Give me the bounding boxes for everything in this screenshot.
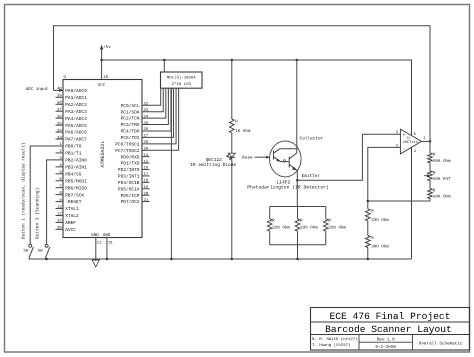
svg-text:10K POT: 10K POT	[433, 177, 451, 182]
svg-text:AVCC: AVCC	[65, 227, 76, 233]
pin 35 PA5/ADC5	[56, 124, 64, 126]
svg-text:PC5/TDI: PC5/TDI	[121, 135, 140, 141]
svg-text:N. R. Smith (nrs27): N. R. Smith (nrs27)	[312, 337, 358, 342]
resistor R 10K Ohm	[429, 181, 431, 189]
svg-text:PC1/SDA: PC1/SDA	[121, 109, 140, 115]
svg-text:Overall Schematic: Overall Schematic	[419, 341, 463, 347]
svg-text:35: 35	[57, 121, 62, 126]
svg-text:36: 36	[57, 114, 62, 119]
svg-text:Button 1 (ready/scan, display: Button 1 (ready/scan, display result)	[21, 143, 27, 239]
pin 17 PD3/INT1	[142, 175, 150, 177]
pin 14 PD0/RXD	[142, 156, 150, 158]
svg-text:MDL(S)-16264: MDL(S)-16264	[167, 76, 196, 81]
wire LCD ground return	[170, 88, 172, 259]
svg-text:PD4/OC1B: PD4/OC1B	[118, 180, 140, 186]
pin 33 PA7/ADC7	[56, 138, 64, 140]
svg-text:IR emitting Diode: IR emitting Diode	[190, 162, 236, 168]
svg-text:32: 32	[57, 219, 62, 224]
node divider gnd	[367, 258, 370, 261]
svg-text:Rev 1.0: Rev 1.0	[377, 338, 395, 343]
svg-text:2*16 LCD: 2*16 LCD	[172, 82, 192, 87]
pin 7 PB6/MISO	[56, 187, 64, 189]
wire LCD supply	[163, 60, 165, 72]
op IC outline: microcontroller U ATMEGA32L	[63, 80, 142, 238]
switch SW button 2	[45, 244, 48, 247]
node collector tap	[296, 59, 299, 62]
wire R to diode	[231, 133, 233, 153]
pin 8 PB7/SCK	[56, 194, 64, 196]
svg-text:39: 39	[57, 94, 62, 99]
resistor R 1K Ohm	[230, 119, 235, 133]
svg-text:PC7/TOSC2: PC7/TOSC2	[115, 148, 140, 154]
svg-text:31: 31	[108, 241, 113, 246]
svg-text:PA5/ADC5: PA5/ADC5	[65, 123, 87, 129]
svg-text:Photodarlington (IR Detector): Photodarlington (IR Detector)	[247, 184, 329, 190]
svg-text:PB1/T1: PB1/T1	[65, 151, 82, 157]
svg-text:38: 38	[57, 101, 62, 106]
svg-text:PA3/ADC3: PA3/ADC3	[65, 109, 87, 115]
title block	[311, 308, 470, 351]
wire ground rail	[29, 258, 412, 260]
op-amp U LMC7111	[400, 129, 421, 154]
switch SW button 1	[29, 244, 32, 247]
svg-text:PB6/MISO: PB6/MISO	[65, 185, 87, 191]
svg-text:PA4/ADC4: PA4/ADC4	[65, 116, 87, 122]
wire ADC input to pin 40	[54, 89, 64, 91]
wire diode to ground	[231, 157, 233, 259]
svg-text:-RESET: -RESET	[65, 199, 82, 205]
node emitter junction	[296, 179, 299, 182]
svg-text:13: 13	[57, 205, 62, 210]
svg-text:PC3/TMS: PC3/TMS	[121, 122, 140, 128]
svg-text:5-2-2006: 5-2-2006	[375, 345, 396, 350]
wire VCC drop to pin 10	[101, 60, 103, 80]
svg-text:SW: SW	[23, 248, 28, 253]
svg-text:12: 12	[57, 212, 62, 217]
svg-text:AREF: AREF	[65, 221, 76, 226]
node GND pin31	[106, 258, 109, 261]
pin 15 PD1/TXD	[142, 162, 150, 164]
transistor L14F2 photodarlington	[270, 141, 302, 177]
wire emitter	[296, 170, 298, 180]
wire load bank top	[270, 206, 326, 208]
pin 39 PA1/ADC1	[56, 96, 64, 98]
node 330 bank gnd	[296, 258, 299, 261]
wire GND pin 31	[106, 238, 108, 260]
svg-text:Barcode Scanner Layout: Barcode Scanner Layout	[325, 324, 452, 335]
svg-text:PD3/INT1: PD3/INT1	[118, 174, 140, 180]
resistor R3 330 Ohm	[325, 207, 327, 219]
svg-text:33: 33	[57, 135, 62, 140]
svg-text:PD6/ICP: PD6/ICP	[121, 193, 140, 199]
svg-text:Button 2 (Scanning): Button 2 (Scanning)	[35, 188, 41, 239]
node inverting/divider tee	[367, 200, 370, 203]
svg-text:34: 34	[57, 128, 62, 133]
svg-text:PC6/TOSC1: PC6/TOSC1	[115, 141, 140, 147]
pin 6 PB5/MOSI	[56, 180, 64, 182]
svg-text:LMC7111: LMC7111	[402, 140, 418, 145]
wire emitter to load bank	[296, 180, 298, 206]
pin 9 -RESET	[56, 201, 64, 203]
potentiometer R 10K POT	[429, 163, 431, 171]
node 1K resistor tap	[231, 59, 234, 62]
svg-text:+5v: +5v	[103, 45, 111, 50]
svg-text:15: 15	[144, 159, 149, 164]
wire feedback bottom	[368, 199, 430, 201]
svg-text:PC0/SCL: PC0/SCL	[121, 103, 140, 109]
svg-text:21: 21	[144, 198, 149, 203]
wire ADC net: op-amp output to PA0/ADC0 via top rail	[54, 26, 431, 142]
svg-text:PD5/OC1A: PD5/OC1A	[118, 186, 140, 192]
pin 4 V- to ground	[411, 148, 413, 259]
node LCD gnd	[170, 258, 173, 261]
svg-text:ATMEGA32L: ATMEGA32L	[100, 140, 106, 167]
svg-text:Emitter: Emitter	[302, 173, 321, 179]
svg-text:PB0/T0: PB0/T0	[65, 144, 82, 150]
pin 13 XTAL1	[56, 208, 64, 210]
svg-text:PB4/SS: PB4/SS	[65, 171, 82, 177]
resistor R 20K Ohm	[429, 141, 431, 153]
wire collector	[296, 60, 298, 145]
svg-text:PB5/MOSI: PB5/MOSI	[65, 178, 87, 184]
svg-text:PA6/ADC6: PA6/ADC6	[65, 130, 87, 136]
resistor R2 330 Ohm	[297, 207, 299, 219]
ground symbol	[92, 260, 99, 267]
svg-text:PA7/ADC7: PA7/ADC7	[65, 137, 87, 143]
node LCD supply tap	[163, 59, 166, 62]
svg-text:20: 20	[144, 191, 149, 196]
svg-text:16: 16	[144, 166, 149, 171]
pin 5 PB4/SS	[56, 173, 64, 175]
node IR diode gnd	[231, 258, 234, 261]
wire bank to ground	[297, 245, 299, 259]
resistor R 330 Ohm divider	[367, 201, 369, 209]
pin 36 PA4/ADC4	[56, 117, 64, 119]
svg-text:Base: Base	[242, 156, 253, 161]
svg-text:PD2/INT0: PD2/INT0	[118, 167, 140, 173]
pin 2 inverting input wire	[368, 147, 401, 201]
wire emitter to op-amp + input	[297, 134, 400, 180]
pin 30 AVCC	[56, 228, 64, 230]
LCD module MDL(S)-16264	[161, 72, 203, 88]
svg-text:30: 30	[57, 226, 62, 231]
pin 4 PB3/AIN1	[56, 166, 64, 168]
power +5v symbol	[100, 45, 103, 50]
wire button 2 to PB2/AIN0	[47, 160, 63, 244]
svg-text:17: 17	[144, 172, 149, 177]
pin 19 PD5/OC1A	[142, 188, 150, 190]
svg-text:PD1/TXD: PD1/TXD	[121, 161, 140, 167]
svg-text:PA0/ADC0: PA0/ADC0	[65, 88, 87, 94]
node +5v/VCC tee	[100, 59, 103, 62]
svg-text:XTAL1: XTAL1	[65, 207, 79, 212]
svg-text:10: 10	[103, 75, 108, 80]
pin 34 PA6/ADC6	[56, 131, 64, 133]
pin 18 PD4/OC1B	[142, 181, 150, 183]
wire LCD data bus pins 22-29	[142, 88, 161, 105]
svg-text:PD7/OC2: PD7/OC2	[121, 199, 140, 205]
pin 16 PD2/INT0	[142, 169, 150, 171]
svg-text:PB7/SCK: PB7/SCK	[65, 192, 84, 198]
pin 12 XTAL2	[56, 215, 64, 217]
darlington internals	[273, 151, 275, 160]
resistor R1 330 Ohm	[269, 207, 271, 219]
wire +5v rail	[102, 60, 412, 135]
svg-text:ECE 476 Final Project: ECE 476 Final Project	[330, 311, 451, 322]
wire button 1 to PB0/T0	[30, 146, 63, 244]
svg-text:GND: GND	[103, 233, 111, 238]
wire +5v to R 1K	[231, 60, 233, 119]
pin 38 PA2/ADC2	[56, 103, 64, 105]
svg-text:XTAL2: XTAL2	[65, 213, 79, 219]
svg-text:PA1/ADC1: PA1/ADC1	[65, 95, 87, 101]
svg-text:11: 11	[97, 241, 102, 246]
pin 20 PD6/ICP	[142, 194, 150, 196]
svg-text:PD0/RXD: PD0/RXD	[121, 154, 140, 160]
svg-text:PA2/ADC2: PA2/ADC2	[65, 102, 87, 108]
node button2 ground	[45, 258, 48, 261]
pin 37 PA3/ADC3	[56, 110, 64, 112]
svg-text:+: +	[403, 133, 406, 138]
svg-text:19: 19	[144, 185, 149, 190]
wire load bank bottom	[270, 244, 326, 246]
svg-text:T. Huang (th257): T. Huang (th257)	[312, 343, 350, 348]
diode QEC122 IR emitting	[228, 153, 235, 157]
pin 2 PB1/T1	[56, 152, 64, 154]
svg-text:37: 37	[57, 107, 62, 112]
node op-amp output junction	[429, 140, 432, 143]
svg-text:14: 14	[144, 153, 149, 158]
wire GND pin 11	[95, 238, 97, 262]
svg-text:PB2/AIN0: PB2/AIN0	[65, 158, 87, 164]
svg-text:PC2/TCK: PC2/TCK	[121, 116, 140, 122]
pin 1 output wire	[422, 140, 431, 142]
svg-text:PC4/TDO: PC4/TDO	[121, 129, 140, 135]
svg-text:GND: GND	[91, 233, 99, 238]
resistor R 300 Ohm divider	[367, 221, 369, 236]
svg-text:PB3/AIN1: PB3/AIN1	[65, 164, 87, 170]
pin 21 PD7/OC2	[142, 201, 150, 203]
svg-text:VCC: VCC	[98, 83, 106, 88]
svg-text:-: -	[403, 147, 406, 152]
svg-text:SW: SW	[38, 248, 43, 253]
pin 32 AREF	[56, 221, 64, 223]
svg-text:18: 18	[144, 179, 149, 184]
svg-text:Collector: Collector	[300, 135, 324, 141]
